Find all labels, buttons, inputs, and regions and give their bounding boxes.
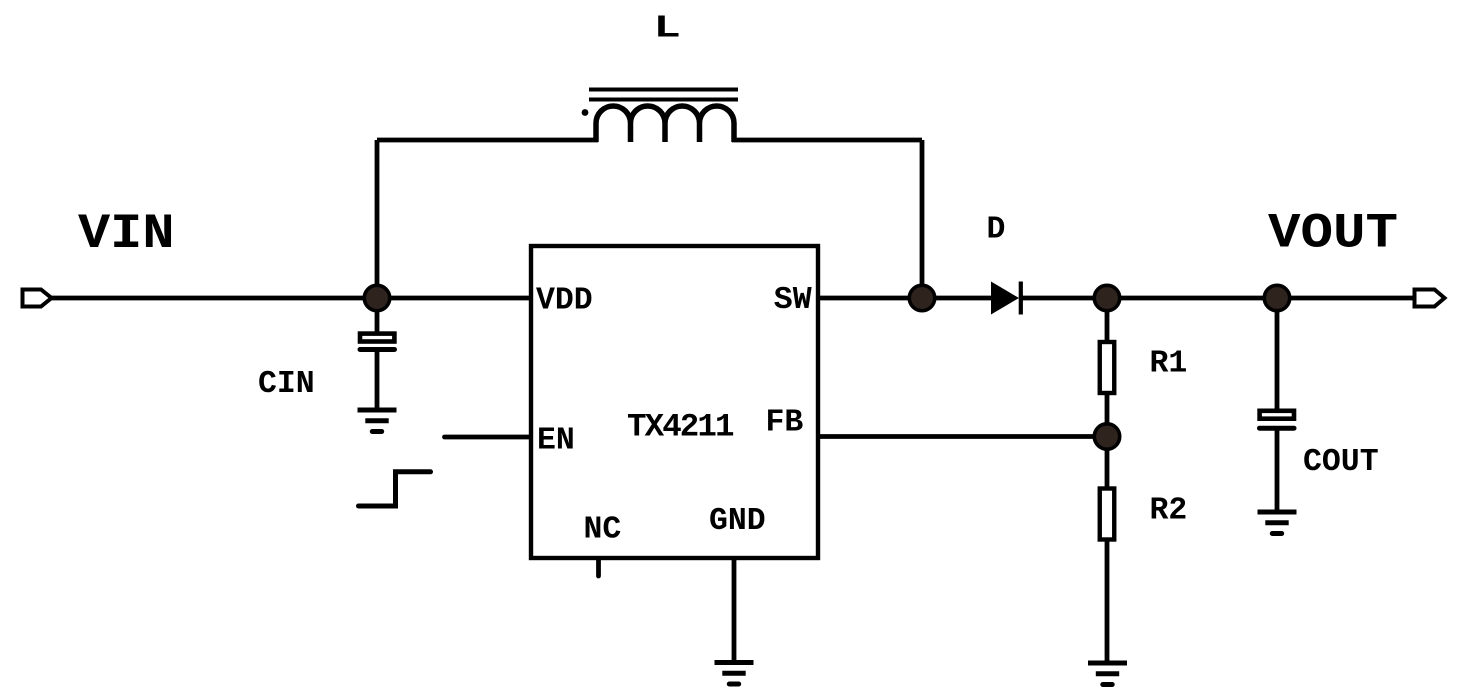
wire EN pin (445, 435, 532, 440)
VOUT output connector (1415, 290, 1445, 307)
wire VIN input to VDD pin (49, 296, 531, 301)
resistor R1 (1100, 342, 1115, 393)
wire FB node to R2 (1105, 437, 1110, 488)
node diode-R1 junction (1094, 285, 1119, 310)
svg-text:GND: GND (709, 504, 766, 539)
node VOUT junction (1264, 285, 1289, 310)
op-amp U1 IC body TX4211 (531, 246, 818, 558)
wire SW pin to diode anode (818, 296, 993, 301)
svg-text:VOUT: VOUT (1268, 206, 1398, 262)
wire COUT to ground (1275, 430, 1280, 512)
wire VIN node down to CIN (375, 298, 380, 332)
diode D triangle (991, 282, 1019, 315)
svg-text:VDD: VDD (536, 284, 593, 319)
wire NC pin stub (596, 558, 601, 576)
svg-text:CIN: CIN (258, 367, 315, 402)
ground below COUT (1258, 512, 1297, 534)
capacitor COUT bottom plate (1260, 426, 1295, 431)
wire CIN to ground (375, 351, 380, 410)
wire VIN node up to inductor level (375, 140, 380, 298)
wire diode node down to R1 (1105, 298, 1110, 341)
svg-text:R1: R1 (1150, 346, 1188, 381)
capacitor CIN top plate (360, 334, 394, 342)
node SW junction (909, 285, 934, 310)
diode D cathode bar (1019, 282, 1023, 315)
inductor phase dot (582, 109, 589, 116)
inductor L windings (596, 106, 734, 142)
svg-text:SW: SW (774, 283, 812, 318)
ground below R2 (1088, 663, 1127, 685)
node VIN junction (364, 285, 389, 310)
svg-text:L: L (654, 10, 681, 46)
ground below GND pin (715, 663, 754, 685)
inductor L core bars (589, 90, 738, 100)
node FB junction (1094, 424, 1119, 449)
wire R1 to FB node (1105, 394, 1110, 437)
capacitor CIN bottom plate (360, 347, 395, 352)
wire FB pin to feedback node (818, 434, 1107, 439)
svg-text:NC: NC (584, 513, 622, 548)
svg-text:COUT: COUT (1303, 445, 1379, 480)
capacitor COUT top plate (1260, 411, 1294, 419)
wire VOUT node down to COUT (1275, 298, 1280, 409)
svg-text:FB: FB (766, 406, 804, 441)
svg-text:TX4211: TX4211 (627, 409, 734, 446)
wire R2 to ground (1105, 541, 1110, 663)
wire inductor to SW drop (732, 138, 922, 143)
wire GND pin stub (732, 558, 737, 663)
wire top left to inductor (377, 138, 598, 143)
EN step waveform (359, 472, 431, 506)
svg-text:EN: EN (537, 424, 575, 459)
wire down to SW node (920, 140, 925, 298)
VIN input connector (23, 290, 52, 307)
ground below CIN (358, 410, 397, 432)
wire diode cathode to VOUT connector (1020, 296, 1414, 301)
svg-text:R2: R2 (1150, 494, 1188, 529)
svg-text:VIN: VIN (78, 206, 175, 262)
svg-text:D: D (987, 213, 1006, 248)
resistor R2 (1100, 489, 1115, 540)
